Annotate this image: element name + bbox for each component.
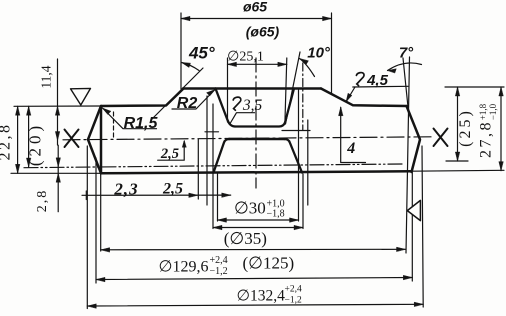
dia132.4 left extension (86, 146, 88, 309)
thin inner horizontal left (205, 131, 219, 133)
leader dimension 4 (341, 108, 366, 163)
dimension line dia25.1 (228, 63, 287, 65)
inner dash-dot-dot reference line (24, 164, 402, 168)
leader undercut 4.5 (353, 85, 408, 88)
svg-text:2,8: 2,8 (35, 189, 50, 213)
dimension line dia132.4 (87, 304, 423, 306)
section mark X right (434, 129, 448, 147)
part profile: right step chamfer and surface (321, 89, 407, 107)
svg-text:7°: 7° (399, 45, 414, 62)
surface finish triangle (71, 88, 91, 105)
svg-text:−1,0: −1,0 (488, 103, 498, 120)
dimension line (25) (457, 87, 459, 161)
dia65 right extension (331, 13, 333, 94)
7 deg slant extension thin (403, 58, 409, 112)
dimension line 27.8 (500, 87, 502, 171)
svg-text:4: 4 (346, 140, 355, 157)
right bottom extension line (412, 169, 505, 172)
svg-text:11,4: 11,4 (39, 65, 54, 88)
svg-text:∅30: ∅30 (234, 199, 266, 218)
leader 2.5 upper (158, 142, 185, 161)
bottom edge extension to left (11, 172, 101, 174)
dimension line dia65 (181, 18, 332, 20)
dia30 left extension (217, 174, 219, 221)
thin inner vertical e (307, 120, 309, 205)
svg-text:+2,4: +2,4 (285, 285, 302, 295)
svg-text:27,8: 27,8 (478, 120, 495, 158)
svg-text:4,5: 4,5 (366, 72, 389, 89)
dia125 left extension (100, 173, 102, 251)
thin inner vertical d / dia30 right extension (298, 90, 300, 221)
svg-text:ø65: ø65 (243, 0, 267, 15)
svg-text:2,3: 2,3 (113, 180, 138, 199)
dia25.1 left extension (227, 58, 229, 122)
svg-text:−1,2: −1,2 (210, 266, 228, 277)
top surface extension to left (14, 105, 101, 107)
svg-text:3,5: 3,5 (242, 97, 263, 114)
svg-text:2,5: 2,5 (160, 146, 179, 162)
dia129.6 left extension (95, 158, 97, 283)
part profile: right flash vee (407, 106, 421, 172)
dia65 left extension (180, 13, 182, 89)
part profile: top-left surface (101, 89, 183, 106)
bore lower recess right slant (284, 139, 302, 173)
svg-text:(20): (20) (26, 122, 45, 166)
45 deg chamfer extension thin (152, 68, 203, 119)
undercut symbol 4,5 (356, 73, 364, 86)
dimension line dia125 (101, 248, 406, 251)
svg-text:2,5: 2,5 (162, 181, 183, 198)
svg-text:R1,5: R1,5 (124, 115, 159, 132)
thin inner vertical c / dia35 left extension (212, 104, 214, 229)
right plateau extension line (445, 86, 504, 88)
leader R1.5 (103, 108, 157, 129)
dimension line 22.8 (17, 106, 19, 173)
part profile: left vertical edge (100, 106, 103, 173)
part profile: bottom edge (101, 171, 412, 173)
7 deg vertical / dia125 right extension (406, 57, 410, 253)
leader R2 (172, 90, 215, 110)
10 deg angle arc (300, 59, 315, 77)
dia129.6 right extension (411, 172, 413, 281)
thin inner vertical a (197, 139, 199, 199)
svg-text:−1,8: −1,8 (267, 209, 285, 220)
svg-text:45°: 45° (188, 44, 215, 63)
10 deg slant extension thin (286, 52, 301, 124)
svg-text:−1,2: −1,2 (285, 296, 302, 306)
bore upper recess left slant (216, 89, 236, 127)
svg-text:R2: R2 (177, 95, 198, 112)
vertical bore centre line (255, 58, 257, 188)
thin inner vertical b (206, 96, 208, 205)
leader web 3.5 (230, 113, 255, 125)
svg-text:(ø65): (ø65) (246, 24, 280, 40)
dimension line dia30 (218, 219, 299, 221)
part profile: left flash vee (88, 106, 101, 173)
svg-text:(∅125): (∅125) (242, 254, 294, 273)
bore upper recess bottom (waist top) (235, 89, 294, 127)
allowance chain line 2.3 / 2.5 (82, 194, 231, 196)
dimension line (20) (28, 106, 30, 167)
thin inner horizontal right (282, 130, 310, 132)
section mark X left (65, 130, 79, 148)
svg-text:∅132,4: ∅132,4 (237, 288, 286, 305)
part profile: top plateau (183, 87, 321, 90)
svg-text:+2,4: +2,4 (210, 255, 228, 266)
svg-text:∅25,1: ∅25,1 (227, 50, 264, 65)
dia132.4 right extension (422, 146, 423, 307)
die parting symbol (407, 200, 420, 220)
dimension line 2.8 (57, 145, 59, 212)
svg-text:(25): (25) (457, 108, 474, 147)
7 deg angle arc (388, 63, 422, 71)
right (25) lower extension stub (446, 160, 468, 162)
horizontal centre line X-X (63, 137, 433, 140)
bore web bottom edge (229, 138, 285, 141)
svg-text:22,8: 22,8 (0, 123, 14, 161)
dimension line dia129.6 (96, 278, 412, 280)
svg-text:∅129,6: ∅129,6 (159, 259, 209, 276)
45 deg angle arc (182, 63, 200, 71)
svg-text:(∅35): (∅35) (224, 229, 267, 248)
dimension line 11.4 (57, 59, 59, 145)
svg-text:10°: 10° (307, 45, 331, 62)
bore lower recess left slant (214, 139, 230, 173)
svg-text:+1,8: +1,8 (478, 103, 488, 120)
undercut symbol 3,5 (233, 97, 241, 110)
dimension line dia35 (213, 227, 303, 229)
dia35 right extension (302, 174, 304, 229)
10 deg vertical dash-dot reference (302, 63, 304, 130)
dia25.1 right extension (285, 58, 287, 120)
hidden edge dashes left (113, 112, 115, 137)
